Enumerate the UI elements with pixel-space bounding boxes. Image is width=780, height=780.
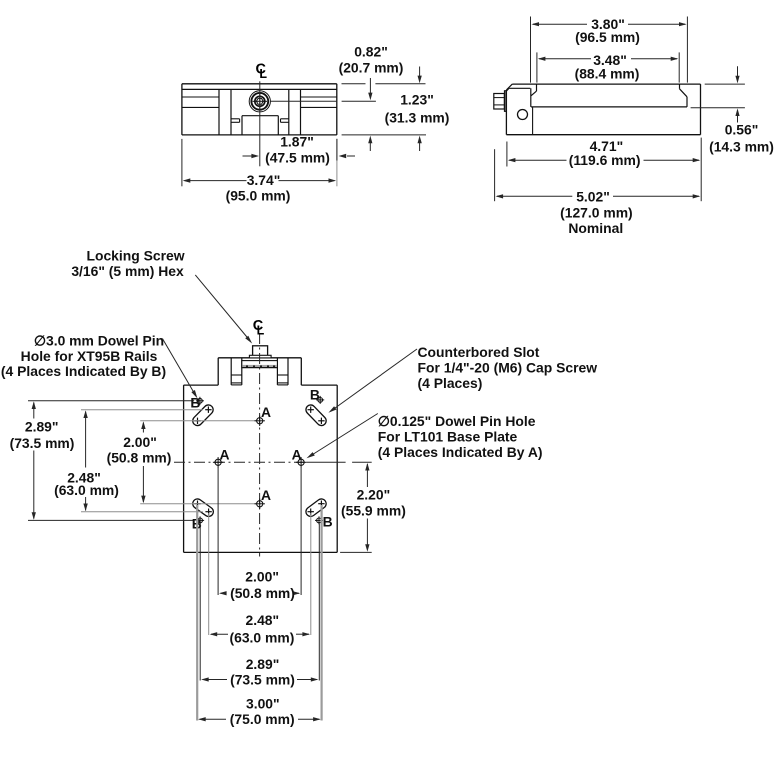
dimension 2.48in (vertical) arrows xyxy=(83,410,87,511)
dimension 3.48in text xyxy=(575,52,640,82)
dowel hole B bottom-left xyxy=(196,516,204,524)
dimension 3.80in extension lines xyxy=(531,17,688,83)
callout: dowel pin 0.125 leader xyxy=(307,414,378,459)
dimension 1.23in text xyxy=(385,91,450,125)
dowel hole A left xyxy=(213,457,223,467)
chain extension from B holes xyxy=(200,524,319,681)
svg-text:B: B xyxy=(190,395,200,411)
right view: rail bar top xyxy=(531,106,687,108)
svg-text:1.23": 1.23" xyxy=(400,91,434,107)
svg-text:Counterbored Slot: Counterbored Slot xyxy=(418,344,540,360)
top-left view: centre tongue xyxy=(242,116,278,135)
svg-text:Nominal: Nominal xyxy=(568,220,623,236)
svg-text:(63.0 mm): (63.0 mm) xyxy=(54,482,119,498)
svg-text:(88.4 mm): (88.4 mm) xyxy=(575,66,640,82)
counterbored slot bottom-left xyxy=(194,501,212,515)
top-left view: locking screw circles xyxy=(249,91,270,112)
dowel hole A bottom xyxy=(255,499,265,509)
svg-text:(119.6 mm): (119.6 mm) xyxy=(569,152,641,168)
counterbored slot top-right xyxy=(308,407,325,425)
svg-text:(50.8 mm): (50.8 mm) xyxy=(107,450,172,466)
svg-text:(4 Places Indicated By A): (4 Places Indicated By A) xyxy=(378,444,543,460)
dimension 2.89in (vertical) arrows xyxy=(32,401,36,519)
svg-text:(75.0 mm): (75.0 mm) xyxy=(230,711,295,727)
svg-text:2.48": 2.48" xyxy=(245,612,279,628)
label B top-right xyxy=(310,387,320,403)
svg-text:(63.0 mm): (63.0 mm) xyxy=(229,629,294,645)
svg-text:(4 Places): (4 Places) xyxy=(418,375,483,391)
svg-text:(55.9 mm): (55.9 mm) xyxy=(341,503,406,519)
top-left view: right column xyxy=(289,89,301,134)
svg-text:∅0.125" Dowel Pin Hole: ∅0.125" Dowel Pin Hole xyxy=(378,413,536,429)
label A top xyxy=(261,404,271,420)
extension lines from slot pins (left, 2.48in) xyxy=(81,410,203,512)
counterbored slot top-left xyxy=(194,407,211,425)
dimension 2.89in text xyxy=(10,418,75,451)
dimension 3.48in line xyxy=(538,57,679,61)
svg-text:A: A xyxy=(261,404,271,420)
svg-text:A: A xyxy=(219,447,229,463)
dimension 4.71in text xyxy=(569,138,641,168)
bottom view: horizontal centreline xyxy=(174,461,372,463)
top-left view: part outline xyxy=(182,84,337,135)
svg-text:0.56": 0.56" xyxy=(725,121,759,137)
bottom view: locking screw knob xyxy=(249,346,271,358)
svg-text:For 1/4"-20 (M6) Cap Screw: For 1/4"-20 (M6) Cap Screw xyxy=(418,359,598,375)
dowel hole A right xyxy=(296,457,306,467)
label B top-left xyxy=(190,395,200,411)
dowel hole B top-right xyxy=(316,396,324,404)
svg-text:A: A xyxy=(261,487,271,503)
right view: bottom edge xyxy=(506,134,700,136)
bottom view: vertical centreline xyxy=(259,333,261,557)
svg-text:(50.8 mm): (50.8 mm) xyxy=(230,585,295,601)
dimension 2.00in (vertical) arrows xyxy=(141,421,145,503)
svg-text:3.00": 3.00" xyxy=(246,695,280,711)
svg-text:2.00": 2.00" xyxy=(123,434,157,450)
right view: rail top edge xyxy=(537,83,701,85)
bottom view: CL symbol xyxy=(253,318,265,337)
right view: left notch xyxy=(531,84,537,96)
svg-text:L: L xyxy=(257,323,265,337)
top-left view: left column xyxy=(219,89,231,134)
right view: clamp knob xyxy=(494,91,507,112)
dimension 2.48in (chain) text xyxy=(229,612,294,645)
dimension 0.82in arrows xyxy=(368,78,372,151)
extension line left edge below xyxy=(181,139,183,186)
svg-text:L: L xyxy=(259,67,267,81)
right view: clamp hole xyxy=(518,110,528,120)
dimension 1.87in arrows xyxy=(243,154,356,158)
dimension 2.89in (chain) arrows xyxy=(201,677,318,681)
chain extension from slot inner pins xyxy=(209,513,311,635)
svg-text:(96.5 mm): (96.5 mm) xyxy=(575,29,640,45)
label A left xyxy=(219,447,229,463)
counterbored slot bottom-right xyxy=(308,501,325,515)
chain extension from A holes xyxy=(218,467,301,595)
svg-text:(31.3 mm): (31.3 mm) xyxy=(385,109,450,125)
dimension 1.23in arrows xyxy=(418,67,422,152)
svg-text:(73.5 mm): (73.5 mm) xyxy=(10,435,75,451)
svg-text:(127.0 mm): (127.0 mm) xyxy=(560,204,633,220)
right view: clamp block xyxy=(506,84,536,135)
label A right xyxy=(292,447,302,463)
top-left view: right block lines xyxy=(301,97,337,107)
extension lines from B holes (left, 2.89in) xyxy=(28,401,194,521)
dimension 2.89in (chain) text xyxy=(230,656,295,687)
top-left view: vertical centreline xyxy=(259,81,261,166)
svg-text:0.82": 0.82" xyxy=(354,44,388,60)
dimension 4.71in extension lines xyxy=(507,138,701,202)
svg-text:(14.3 mm): (14.3 mm) xyxy=(709,138,774,154)
svg-text:3.74": 3.74" xyxy=(247,172,281,188)
label B bottom-left xyxy=(192,516,202,532)
dimension 5.02in line xyxy=(496,194,701,198)
callout: locking screw leader xyxy=(195,275,252,344)
right view: right notch xyxy=(680,84,688,107)
callout: dowel pin 0.125 text xyxy=(378,413,543,460)
dimension 0.56in text xyxy=(709,121,774,154)
svg-text:(47.5 mm): (47.5 mm) xyxy=(265,150,330,166)
dimension 3.80in line xyxy=(531,22,686,26)
dimension 3.74in line xyxy=(183,178,336,182)
dimension 0.82in text xyxy=(339,44,404,76)
dimension 2.20in text xyxy=(341,487,406,519)
svg-text:5.02": 5.02" xyxy=(576,188,610,204)
svg-text:Locking Screw: Locking Screw xyxy=(86,248,184,264)
callout: locking screw text xyxy=(71,248,184,280)
dimension 3.74in text xyxy=(226,172,291,204)
svg-text:B: B xyxy=(310,387,320,403)
svg-text:(73.5 mm): (73.5 mm) xyxy=(230,671,295,687)
extension line top edge (right of view) xyxy=(342,83,426,85)
dimension 3.00in (chain) arrows xyxy=(198,717,321,721)
svg-text:2.89": 2.89" xyxy=(246,656,280,672)
dimension 3.80in text xyxy=(575,16,640,45)
top-left view: CL symbol xyxy=(256,62,268,81)
extension line right edge below xyxy=(336,139,338,187)
bottom view: narrow top section outline xyxy=(218,358,301,385)
svg-text:1.87": 1.87" xyxy=(280,133,314,149)
extension lines from A holes (left, 2.00in) xyxy=(140,421,256,504)
dimension 2.20in arrows xyxy=(365,463,369,552)
top-left view: left block lines xyxy=(182,97,219,107)
callout: counterbored slot text xyxy=(418,344,598,391)
top-left view: right step ledge xyxy=(281,119,289,123)
svg-text:(20.7 mm): (20.7 mm) xyxy=(339,59,404,75)
dowel hole B top-left xyxy=(196,397,204,405)
svg-text:(4 Places Indicated By B): (4 Places Indicated By B) xyxy=(1,363,166,379)
svg-text:2.89": 2.89" xyxy=(25,418,59,434)
dimension 2.00in (chain) text xyxy=(230,569,295,601)
svg-text:A: A xyxy=(292,447,302,463)
callout: counterbored slot leader xyxy=(328,349,417,413)
svg-text:2.20": 2.20" xyxy=(357,487,391,503)
svg-text:(95.0 mm): (95.0 mm) xyxy=(226,188,291,204)
svg-text:2.00": 2.00" xyxy=(245,569,279,585)
label A bottom xyxy=(261,487,271,503)
dimension 5.02in extension line xyxy=(494,149,496,201)
top-left view: left step ledge xyxy=(231,119,240,123)
bottom view: clamp screw band xyxy=(242,361,278,368)
callout: dowel pin 3.0mm leader xyxy=(162,339,197,399)
bottom view: clamp left column xyxy=(231,358,242,385)
svg-text:3/16" (5 mm) Hex: 3/16" (5 mm) Hex xyxy=(71,263,184,279)
svg-text:B: B xyxy=(323,514,333,530)
dimension 3.00in (chain) text xyxy=(230,695,295,727)
dimension 2.48in (chain) arrows xyxy=(210,632,310,636)
chain extension from slot outer pins xyxy=(197,505,321,721)
svg-text:∅3.0 mm Dowel Pin: ∅3.0 mm Dowel Pin xyxy=(34,332,164,348)
screw centre leader line xyxy=(270,100,376,102)
dowel hole A top xyxy=(255,416,265,426)
callout: dowel pin 3.0mm text xyxy=(1,332,166,379)
dimension 1.87in text xyxy=(265,133,330,165)
dimension 0.56in extension+arrows xyxy=(691,66,745,122)
dimension 2.48in text xyxy=(54,469,119,498)
dimension 4.71in line xyxy=(508,158,701,162)
dimension 5.02in text xyxy=(560,188,633,236)
bottom view: clamp right column xyxy=(277,358,288,385)
dimension 2.00in (vertical) text xyxy=(107,434,172,466)
label B bottom-right xyxy=(323,514,333,530)
extension line plate bottom (right) xyxy=(340,551,372,553)
right view: right end edge xyxy=(700,84,702,135)
svg-text:Hole for XT95B Rails: Hole for XT95B Rails xyxy=(21,348,158,364)
dimension 3.48in extension lines xyxy=(537,52,679,82)
dowel hole B bottom-right xyxy=(315,516,323,524)
extension line bottom edge (right of view) xyxy=(342,134,426,136)
svg-text:For LT101 Base Plate: For LT101 Base Plate xyxy=(378,428,518,444)
bottom view: plate outline xyxy=(184,385,338,552)
dimension 2.00in (chain) arrows xyxy=(219,591,300,595)
